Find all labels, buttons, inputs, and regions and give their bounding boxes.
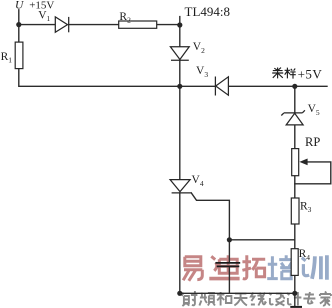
wire R2 to TL494 node [157, 24, 180, 26]
wire V3 anode to right edge [228, 85, 327, 87]
watermark gray glyph 专 [303, 292, 315, 304]
resistor R1 [15, 42, 23, 69]
svg-text:TL494:8: TL494:8 [185, 4, 231, 19]
diode V2 [170, 47, 189, 61]
zener diode V5 [281, 110, 305, 125]
wire R4 bottom to bottom stub [294, 275, 296, 306]
label 采样 (sample) glyph 采 [272, 68, 283, 79]
wire capacitor top lead [228, 240, 230, 262]
watermark gray glyph 计 [287, 292, 302, 306]
potentiometer RP wiper arrow [299, 159, 307, 166]
svg-text:V4: V4 [192, 174, 204, 188]
node junction dot sample rail [292, 84, 297, 89]
resistor R3 [291, 198, 299, 224]
watermark red glyph 易 [183, 257, 202, 281]
watermark gray glyph 家 [320, 292, 331, 306]
svg-text:R2: R2 [119, 11, 131, 24]
wire RP wiper loop [295, 162, 331, 184]
wire R1 bottom to corner to mid line [19, 69, 180, 87]
wire top rail left segment [19, 24, 56, 26]
capacitor C [215, 263, 240, 267]
svg-text:R3: R3 [300, 200, 312, 214]
node junction dot gate [227, 237, 232, 242]
node junction dot mid [177, 84, 182, 89]
watermark gray glyph 设 [269, 293, 285, 306]
label 采样 (sample) glyph 样 [285, 68, 296, 79]
node junction dot top-left [16, 22, 21, 27]
resistor R4 [291, 249, 298, 276]
wire sample node to V5 cathode [294, 86, 296, 113]
resistor R2 [119, 21, 157, 28]
node junction dot TL494 [177, 22, 182, 27]
svg-text:RP: RP [305, 135, 320, 149]
watermark gray glyph 和 [217, 292, 232, 306]
svg-text:V3: V3 [196, 65, 208, 79]
svg-text:V5: V5 [308, 103, 320, 117]
svg-text:R4: R4 [299, 248, 311, 262]
diode V1 [55, 17, 68, 32]
watermark red glyph 迪 [209, 255, 239, 278]
wire U stub to R1 top [18, 10, 20, 42]
svg-text:V2: V2 [193, 41, 205, 55]
watermark blue glyph 培 [267, 255, 293, 278]
wire RP bottom to R3 top [294, 176, 296, 198]
svg-text:U: U [15, 0, 24, 12]
wire mid node down to V4 anode [179, 86, 181, 179]
wire node to V2 anode [179, 25, 181, 47]
watermark gray glyph 线 [251, 293, 267, 306]
svg-text:R1: R1 [1, 51, 13, 65]
node junction dot bottom right [292, 291, 297, 296]
wire V1 to R2 [69, 24, 119, 26]
wire V5 anode to RP top [294, 125, 296, 149]
wire bottom rail [180, 292, 295, 294]
watermark gray glyph 频 [199, 293, 215, 306]
wire V4 gate lead [191, 193, 229, 240]
svg-text:+5V: +5V [298, 66, 323, 81]
wire V2 cathode to mid node [179, 60, 181, 86]
wire mid node to V3 cathode [180, 85, 216, 87]
wire TL494:8 pin stub [179, 17, 181, 25]
watermark gray glyph 天 [234, 294, 248, 306]
potentiometer RP body [292, 149, 299, 176]
wire V4 cathode down to bottom node [179, 193, 181, 293]
diode V3 [215, 77, 228, 96]
watermark gray glyph 射 [182, 291, 198, 306]
watermark blue glyph 训 [302, 255, 327, 279]
wire gate node to divider tap [229, 239, 294, 241]
wire R3 bottom to R4 top [294, 224, 296, 249]
node junction dot bottom left [177, 291, 182, 296]
thyristor V4 [170, 180, 191, 193]
wire capacitor bottom lead [228, 267, 230, 293]
watermark red glyph 拓 [242, 255, 265, 279]
ground terminal bar bottom [290, 306, 302, 308]
